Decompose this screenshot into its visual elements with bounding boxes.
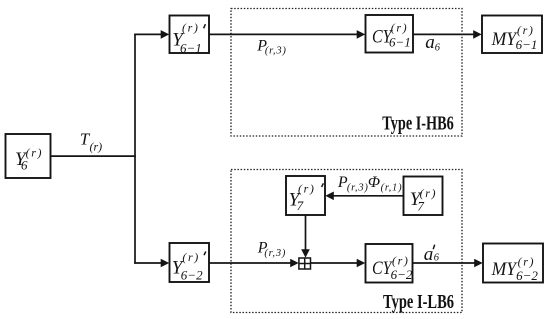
wire Y7' down to adder: [305, 215, 307, 251]
svg-text:(r): (r): [517, 23, 534, 37]
prime of Y6-1: [204, 24, 206, 28]
arrow into Y6-1: [161, 30, 170, 39]
prime of Y6-2: [204, 252, 206, 256]
arrow into CY6-1: [357, 30, 366, 39]
svg-text:6−2: 6−2: [391, 267, 413, 282]
box MY6-1: [482, 16, 542, 54]
svg-text:(r,1): (r,1): [381, 182, 403, 193]
box Y6-2: [170, 243, 210, 282]
wire CY6-2 to MY6-2: [413, 262, 476, 264]
svg-text:MY: MY: [491, 259, 519, 280]
svg-text:6−1: 6−1: [389, 35, 411, 50]
svg-text:(r,3): (r,3): [265, 46, 287, 57]
svg-text:(r): (r): [391, 21, 408, 35]
box Y7': [286, 176, 325, 215]
arrow into adder left: [290, 259, 299, 268]
prime of a'6: [433, 245, 435, 250]
svg-text:(r): (r): [182, 250, 199, 264]
wire branch to Y6-2: [134, 262, 161, 264]
svg-text:a: a: [424, 244, 434, 265]
box CY6-1: [366, 15, 414, 53]
svg-text:7: 7: [297, 198, 304, 213]
svg-text:7: 7: [417, 199, 424, 214]
svg-text:6−1: 6−1: [180, 41, 202, 56]
svg-text:6−2: 6−2: [181, 268, 203, 283]
wire Y6 to branch point: [51, 155, 136, 157]
arrow into Y6-2: [161, 259, 170, 268]
box MY6-2: [483, 244, 543, 283]
box Y6-1: [170, 16, 210, 54]
arrow into Y7': [325, 192, 334, 201]
box Y6: [6, 134, 51, 178]
wire CY6-1 to MY6-1: [413, 33, 474, 35]
svg-text:(r): (r): [518, 255, 535, 269]
wire branch vertical: [134, 34, 136, 264]
wire Y6-2 to adder: [209, 262, 292, 264]
svg-text:6−2: 6−2: [516, 268, 538, 283]
svg-text:6−1: 6−1: [516, 37, 538, 52]
box CY6-2: [366, 244, 413, 283]
arrow into MY6-2: [474, 259, 483, 268]
arrow into MY6-1: [473, 30, 482, 39]
svg-text:MY: MY: [491, 29, 519, 50]
dashed box Type I-HB6: [231, 9, 462, 137]
svg-text:6: 6: [435, 42, 441, 53]
adder boxplus: [299, 258, 311, 269]
svg-text:6: 6: [434, 253, 440, 264]
svg-text:Φ: Φ: [368, 174, 380, 191]
svg-text:(r): (r): [90, 139, 103, 153]
wire Y6-1 to CY6-1: [209, 33, 358, 35]
svg-text:6: 6: [21, 158, 28, 173]
wire adder to CY6-2: [311, 262, 358, 264]
svg-text:Type I-LB6: Type I-LB6: [383, 292, 454, 313]
wire Y7 to Y7': [333, 195, 404, 197]
svg-text:(r): (r): [298, 182, 315, 196]
svg-text:(r,3): (r,3): [347, 182, 369, 193]
box Y7: [404, 177, 443, 216]
dashed box Type I-LB6: [231, 170, 462, 313]
svg-text:a: a: [425, 32, 435, 53]
wire branch to Y6-1: [134, 33, 161, 35]
svg-text:(r): (r): [26, 145, 43, 159]
svg-text:(r,3): (r,3): [264, 248, 286, 259]
svg-text:Type I-HB6: Type I-HB6: [382, 114, 454, 135]
prime of Y7': [322, 183, 324, 187]
svg-text:(r): (r): [392, 253, 409, 267]
svg-text:(r): (r): [182, 20, 199, 34]
arrow into CY6-2: [357, 259, 366, 268]
arrow into adder top: [301, 249, 310, 258]
